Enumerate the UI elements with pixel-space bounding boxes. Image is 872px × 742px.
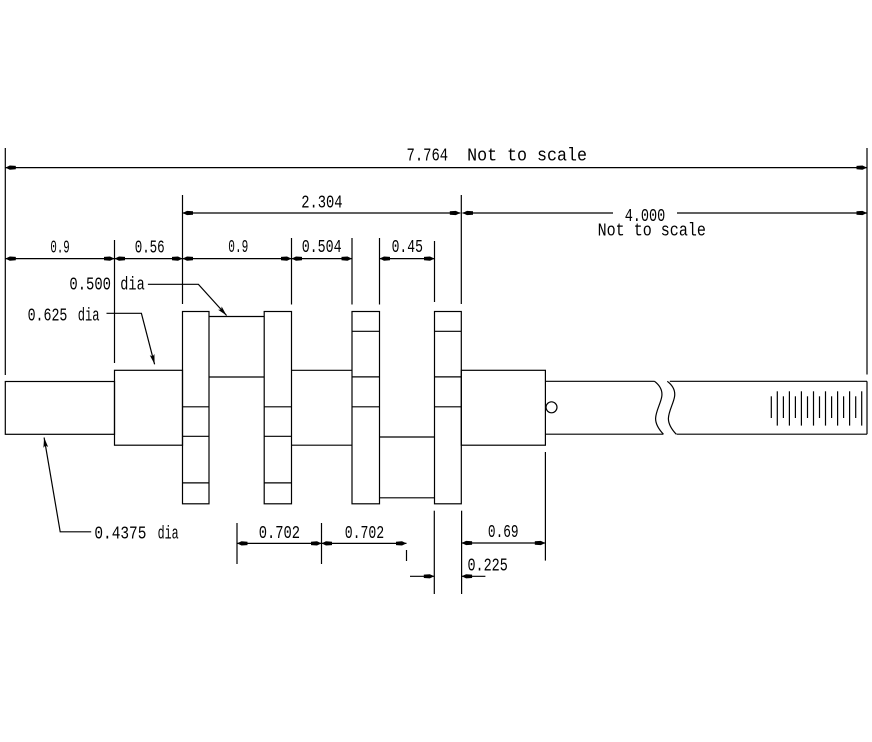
svg-text:0.225: 0.225	[468, 557, 508, 577]
extension line x=182.5	[182, 195, 184, 304]
center journal bottom edge	[292, 444, 353, 446]
dimension 0.69 line	[462, 542, 546, 544]
narrow output shaft bottom edge (left of break)	[545, 433, 663, 435]
web 1 internal line b	[183, 435, 210, 437]
web 3 internal line a	[352, 330, 380, 332]
extension line x=545.4 below	[544, 452, 546, 561]
svg-text:0.4375: 0.4375	[94, 525, 146, 545]
crank pin 2 top edge	[380, 436, 435, 438]
shaft right end face	[866, 381, 868, 434]
extension line right end	[866, 148, 868, 375]
extension line x=291.5	[291, 238, 293, 305]
dimension 0.56 line	[115, 258, 183, 260]
svg-text:0.9: 0.9	[50, 238, 69, 258]
svg-text:0.69: 0.69	[488, 523, 519, 543]
web 4 internal line c	[435, 406, 462, 408]
dimension 2.304 line	[183, 212, 461, 214]
extension line x=114.5	[114, 240, 116, 363]
narrow output shaft top edge (left of break)	[545, 380, 654, 382]
dimension 4.000 line left part	[463, 212, 614, 214]
dimension 0.702 first line	[237, 542, 322, 544]
svg-text:2.304: 2.304	[301, 193, 342, 213]
leader 0.500 dia	[148, 284, 227, 315]
web 1 internal line c	[183, 482, 210, 484]
thread marks	[771, 391, 861, 425]
svg-text:Not to scale: Not to scale	[467, 146, 587, 166]
extension line x=461.3	[460, 195, 462, 304]
leader 0.4375 dia	[44, 438, 91, 532]
small hole circle	[546, 402, 557, 413]
dimension 4.000 line right part	[677, 212, 867, 214]
svg-text:Not to scale: Not to scale	[598, 222, 706, 242]
web 4 internal line a	[435, 330, 462, 332]
dimension 0.504 line	[292, 258, 353, 260]
extension line x=434.5	[434, 241, 436, 302]
extension line x=434.3 below	[433, 511, 435, 594]
extension line x=461.6 below	[461, 511, 463, 594]
crank web 3	[352, 312, 380, 504]
dimension 7.764 line	[5, 167, 867, 169]
dimension 0.225 right tail	[462, 575, 486, 577]
web 4 internal line b	[435, 376, 462, 378]
svg-text:0.45: 0.45	[392, 238, 423, 258]
svg-text:0.9: 0.9	[228, 238, 248, 258]
web 2 internal line b	[264, 435, 291, 437]
extension tick pin2 center	[406, 550, 408, 561]
web 2 internal line a	[264, 406, 291, 408]
svg-text:0.625: 0.625	[28, 306, 68, 326]
threaded end bottom edge	[677, 433, 868, 435]
break squiggle right	[667, 381, 676, 434]
dimension 0.225 left tail	[410, 575, 434, 577]
svg-text:0.702: 0.702	[345, 524, 385, 544]
extension line x=352	[351, 238, 353, 305]
svg-text:0.56: 0.56	[135, 238, 165, 258]
dimension 0.702 second line	[322, 542, 407, 544]
dimension 0.45 line	[380, 258, 435, 260]
svg-text:0.702: 0.702	[259, 524, 300, 544]
svg-text:dia: dia	[158, 525, 179, 545]
threaded end top edge	[670, 380, 867, 382]
web 2 internal line c	[264, 482, 291, 484]
center journal top edge	[292, 369, 353, 371]
svg-text:0.504: 0.504	[302, 238, 342, 258]
extension line journal center	[321, 523, 323, 564]
leader 0.625 dia	[107, 313, 155, 364]
shaft section right of web 4 (0.69 section)	[461, 370, 545, 445]
web 3 internal line b	[352, 376, 380, 378]
svg-text:0.500: 0.500	[69, 275, 111, 295]
svg-text:7.764: 7.764	[407, 146, 449, 166]
extension line x=379.5	[379, 238, 381, 305]
break squiggle left	[655, 381, 664, 434]
crank web 1	[183, 312, 210, 504]
svg-text:dia: dia	[120, 275, 145, 295]
web 1 internal line a	[183, 406, 210, 408]
crank pin 1 bottom edge	[209, 376, 264, 378]
crank pin 2 bottom edge	[380, 497, 435, 499]
shaft section 0.625 dia left journal	[115, 370, 183, 445]
extension line pin1 center	[236, 523, 238, 564]
extension line left end	[4, 148, 6, 375]
crank web 2	[264, 312, 291, 504]
crank web 4	[435, 312, 462, 504]
shaft left end section 0.4375 dia	[5, 382, 114, 435]
web 3 internal line c	[352, 406, 380, 408]
dimension 0.9 first line	[5, 258, 114, 260]
svg-text:dia: dia	[78, 306, 100, 326]
dimension 0.9 second line	[183, 258, 292, 260]
crank pin 1 top edge	[209, 316, 264, 318]
